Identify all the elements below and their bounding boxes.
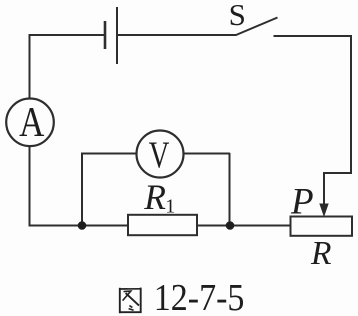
svg-text:12-7-5: 12-7-5 bbox=[154, 276, 245, 316]
wire voltmeter branch left vertical bbox=[81, 154, 83, 227]
voltmeter V1 body bbox=[137, 131, 184, 178]
slider arrowhead P bbox=[319, 204, 328, 218]
svg-text:R: R bbox=[143, 177, 166, 217]
wire left vertical bbox=[29, 34, 31, 227]
wire top-left horizontal bbox=[29, 34, 106, 36]
wire battery to switch bbox=[117, 34, 237, 36]
svg-text:P: P bbox=[290, 182, 314, 223]
wire bottom horizontal bbox=[29, 225, 292, 227]
ammeter A1 body bbox=[6, 99, 54, 147]
caption glyph 图 bbox=[119, 288, 142, 314]
node junction dot left bbox=[78, 221, 87, 230]
node junction dot right bbox=[226, 221, 235, 230]
wire jog to slider bbox=[324, 172, 352, 174]
svg-text:1: 1 bbox=[165, 195, 175, 217]
battery GB short plate (negative) bbox=[104, 21, 107, 49]
wire voltmeter branch right vertical bbox=[229, 153, 231, 226]
resistor R1 body bbox=[128, 215, 197, 235]
svg-text:S: S bbox=[229, 0, 246, 32]
battery GB long plate (positive) bbox=[116, 7, 118, 64]
switch S blade bbox=[236, 18, 278, 36]
wire slider vertical bbox=[323, 172, 325, 208]
svg-text:A: A bbox=[19, 100, 44, 146]
wire voltmeter branch top horizontal bbox=[81, 153, 230, 155]
wire right vertical bbox=[350, 35, 352, 174]
wire switch right contact bbox=[274, 35, 353, 37]
rheostat R body bbox=[291, 217, 353, 236]
svg-text:V: V bbox=[149, 135, 170, 177]
svg-text:R: R bbox=[310, 235, 331, 272]
